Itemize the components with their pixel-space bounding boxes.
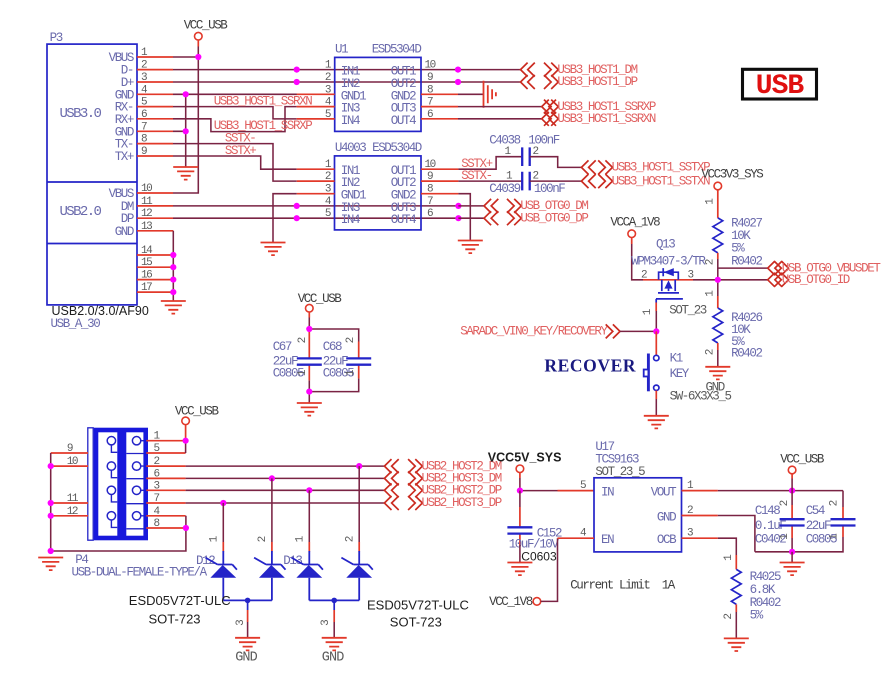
wire VCC5V_SYS to U17 IN xyxy=(520,478,558,491)
svg-text:SARADC_VIN0_KEY/RECOVERY: SARADC_VIN0_KEY/RECOVERY xyxy=(460,325,608,339)
wire SSTX+ OUT1 to C4038 xyxy=(458,157,522,170)
power VCC3V3_SYS xyxy=(701,168,763,218)
svg-text:Current Limit 1A: Current Limit 1A xyxy=(570,579,676,593)
svg-text:6: 6 xyxy=(427,208,433,220)
svg-text:2: 2 xyxy=(345,337,357,343)
ground (P4) xyxy=(38,558,63,571)
svg-text:SW-6X3X3_5: SW-6X3X3_5 xyxy=(670,390,732,404)
svg-text:2: 2 xyxy=(705,349,717,355)
diode D13 lead B xyxy=(358,466,360,542)
capacitor C67 22uF xyxy=(273,332,322,380)
net label USB2_HOST3_DM xyxy=(384,471,501,485)
ESD chip U4003 xyxy=(335,141,422,230)
wire Q13 drain to USB_OTG0_ID xyxy=(693,279,768,281)
svg-text:R0402: R0402 xyxy=(731,255,762,269)
svg-text:USB3_HOST1_SSTXP: USB3_HOST1_SSTXP xyxy=(612,161,711,175)
svg-text:OUT4: OUT4 xyxy=(391,114,416,128)
U1 pin numbers xyxy=(325,60,436,121)
switch K1 KEY xyxy=(644,331,732,403)
wire SSTX- (pin8 to U4003 IN2) xyxy=(173,144,297,182)
ground (D12) xyxy=(235,638,260,651)
svg-text:SSTX+: SSTX+ xyxy=(225,144,256,158)
P3 pin numbers xyxy=(141,47,153,294)
svg-text:IN: IN xyxy=(601,486,614,500)
wire U1 GND2 to right-pointing ground xyxy=(458,93,484,95)
svg-text:Q13: Q13 xyxy=(656,237,675,251)
svg-text:3: 3 xyxy=(320,620,332,626)
power VCC_USB (P4) xyxy=(175,405,220,441)
ground (K1) xyxy=(644,416,669,429)
svg-text:3: 3 xyxy=(235,620,247,626)
wire VCC to P4 pins 1,5 xyxy=(185,441,187,453)
svg-text:KEY: KEY xyxy=(670,367,690,381)
svg-text:ESD5304D: ESD5304D xyxy=(372,42,422,56)
svg-text:VCC_USB: VCC_USB xyxy=(298,292,343,306)
resistor R4027 10K xyxy=(705,198,763,269)
P3 pin stubs xyxy=(137,57,173,292)
wire R4025 to ground xyxy=(735,612,737,638)
wire U17 GND to rail xyxy=(682,515,718,517)
wire D+ (pin3 to U1 IN2 through to OUT2) xyxy=(173,81,521,83)
net label USB2_HOST2_DP xyxy=(384,483,501,497)
svg-text:TX+: TX+ xyxy=(115,150,134,164)
net label USB_OTG0_DM xyxy=(484,199,588,213)
svg-text:K1: K1 xyxy=(670,352,683,366)
junctions diode taps xyxy=(356,463,362,469)
wire D12 common cathode rail xyxy=(223,600,272,610)
svg-text:USB3_HOST1_SSRXN: USB3_HOST1_SSRXN xyxy=(557,112,656,126)
capacitor C4038 100nF xyxy=(489,133,560,166)
svg-text:C0603: C0603 xyxy=(521,549,557,563)
svg-text:2: 2 xyxy=(828,500,840,506)
svg-text:100nF: 100nF xyxy=(534,182,565,196)
svg-text:VOUT: VOUT xyxy=(651,486,677,500)
ground (P3 GND pins) xyxy=(173,167,198,180)
svg-text:9: 9 xyxy=(427,72,433,84)
ground (D13) xyxy=(322,638,347,651)
svg-text:EN: EN xyxy=(601,533,614,547)
capacitor C4039 100nF xyxy=(489,170,565,196)
wire USB2_HOST2_DP row xyxy=(186,489,385,491)
svg-text:C54: C54 xyxy=(806,504,825,518)
svg-text:P3: P3 xyxy=(50,31,63,45)
svg-text:C68: C68 xyxy=(323,340,342,354)
svg-text:GND: GND xyxy=(322,651,344,666)
resistor R4026 10K xyxy=(705,290,763,361)
junction C148 ground rail xyxy=(789,549,795,555)
ground (P3 pins 13-17) xyxy=(161,301,186,314)
svg-text:USB: USB xyxy=(756,71,805,102)
net label SARADC_VIN0_KEY/RECOVERY xyxy=(460,324,620,338)
svg-text:R0402: R0402 xyxy=(731,347,762,361)
U4003 pin numbers xyxy=(325,159,436,220)
ground (C148/C54) xyxy=(780,563,805,576)
power VCCA_1V8 xyxy=(610,216,660,245)
svg-text:2: 2 xyxy=(705,259,717,265)
svg-text:U1: U1 xyxy=(335,42,348,56)
svg-text:SSTX-: SSTX- xyxy=(461,169,492,183)
wire U1 OUT4 xyxy=(458,118,542,120)
wire USB2_HOST3_DM row xyxy=(186,477,385,479)
svg-text:2: 2 xyxy=(257,536,269,542)
svg-text:SOT_23_5: SOT_23_5 xyxy=(595,465,645,479)
wire DM (pin11 through U4003 IN3/OUT3) xyxy=(173,205,458,207)
svg-text:7: 7 xyxy=(427,196,433,208)
ground (R4025) xyxy=(724,638,749,651)
diode D12 lead A xyxy=(222,503,224,542)
capacitor C148 0.1uF xyxy=(755,491,805,552)
junctions DM/DP xyxy=(294,203,300,209)
wire P4 ground pins 9-12 xyxy=(51,453,186,551)
net label USB3_HOST1_SSRXP xyxy=(542,100,656,114)
connector P4 dual USB xyxy=(72,428,208,580)
svg-text:C4039: C4039 xyxy=(489,182,520,196)
title box USB xyxy=(743,69,817,102)
wire SSTX+ (pin9 to U4003 IN1) xyxy=(173,156,297,169)
P4 pin numbers xyxy=(67,431,161,530)
wire OUT4 to USB_OTG0_DP label xyxy=(458,217,484,219)
wire U1 OUT3 xyxy=(458,106,542,108)
net label USB_OTG0_VBUSDET xyxy=(768,261,882,275)
svg-text:OUT4: OUT4 xyxy=(391,213,416,227)
capacitor C68 22uF xyxy=(323,337,371,380)
svg-text:5: 5 xyxy=(325,208,331,220)
wire VCC_1V8 to U17 EN xyxy=(541,538,558,601)
svg-text:C148: C148 xyxy=(755,504,780,518)
ground (U4003 GND2) xyxy=(458,241,483,254)
net label USB3_HOST1_SSRXN xyxy=(542,112,656,126)
svg-text:VCC_USB: VCC_USB xyxy=(780,453,825,467)
svg-text:IN4: IN4 xyxy=(341,213,360,227)
wire SSRXN (pin5 to U1 IN4 with jog) xyxy=(173,107,297,119)
ground (right-pointing, U1 GND2) xyxy=(484,81,496,108)
svg-text:ESD05V72T-ULC: ESD05V72T-ULC xyxy=(129,593,231,608)
svg-text:SOT_23: SOT_23 xyxy=(669,304,707,318)
wire R4026 to ground xyxy=(717,350,719,367)
svg-text:IN4: IN4 xyxy=(341,114,360,128)
wire U17 OCB to R4025 xyxy=(682,537,718,539)
svg-text:VCC_USB: VCC_USB xyxy=(184,18,229,32)
svg-text:SOT-723: SOT-723 xyxy=(390,615,442,630)
svg-text:2: 2 xyxy=(325,72,331,84)
svg-text:VCCA_1V8: VCCA_1V8 xyxy=(610,216,660,230)
net label USB2_HOST3_DP xyxy=(384,496,501,510)
net label USB3_HOST1_DP xyxy=(521,75,638,89)
svg-text:R4025: R4025 xyxy=(750,570,781,584)
power VCC_USB (C67/C68) xyxy=(298,292,343,318)
svg-text:ESD5304D: ESD5304D xyxy=(372,141,422,155)
power VCC_1V8 xyxy=(489,595,541,609)
capacitor C54 22uF xyxy=(755,491,856,552)
svg-text:USB-DUAL-FEMALE-TYPE/A: USB-DUAL-FEMALE-TYPE/A xyxy=(72,565,208,579)
net label USB2_HOST2_DM xyxy=(384,459,501,473)
svg-text:USB3.0: USB3.0 xyxy=(60,106,102,122)
wire D13 common cathode rail xyxy=(309,600,359,610)
connector P3 xyxy=(47,31,137,305)
svg-text:VCC5V_SYS: VCC5V_SYS xyxy=(488,450,562,464)
wire DP (pin12 through U4003 IN4/OUT4) xyxy=(173,217,458,219)
svg-text:22uF: 22uF xyxy=(806,519,831,533)
svg-text:ESD05V72T-ULC: ESD05V72T-ULC xyxy=(367,598,469,613)
regulator U17 TCS9163 xyxy=(580,440,694,552)
wire U4003 GND1 to ground xyxy=(273,194,297,242)
svg-text:VBUS: VBUS xyxy=(109,187,134,201)
svg-text:D13: D13 xyxy=(283,554,302,568)
P4 pin stubs xyxy=(51,441,186,528)
capacitor C152 10uF/10V xyxy=(507,491,562,564)
wire SSRXP (pin6 to U1 IN3 with jog) xyxy=(173,107,297,132)
diode D12 lead B xyxy=(271,478,273,542)
diode D13 lead A xyxy=(308,490,310,542)
U1 pin stubs xyxy=(297,94,458,119)
svg-text:5%: 5% xyxy=(750,609,764,623)
power VCC5V_SYS xyxy=(488,450,562,478)
wire SSTX- OUT2 to C4039 xyxy=(458,180,522,182)
wire R4027/R4026 junction xyxy=(717,268,719,296)
power VCC_USB (U17 output) xyxy=(780,453,825,491)
svg-text:VCC3V3_SYS: VCC3V3_SYS xyxy=(701,168,763,182)
junction pin1/VCC xyxy=(195,54,201,60)
svg-text:2: 2 xyxy=(723,614,735,620)
wire C4038 pin2 to SSTXP label xyxy=(530,157,582,168)
net label USB3_HOST1_SSTXN xyxy=(581,174,710,188)
junctions on D-/D+ wires xyxy=(294,67,300,73)
svg-text:5: 5 xyxy=(580,480,586,492)
wire GND pins 4,7 to U1 GND1 and ground xyxy=(173,94,297,167)
svg-text:C67: C67 xyxy=(273,340,292,354)
wire U4003 GND2 to ground xyxy=(458,194,470,240)
svg-text:6.8K: 6.8K xyxy=(750,583,776,597)
wire USB2_HOST3_DP row xyxy=(186,502,385,504)
wire Q13 gate to key net xyxy=(655,311,657,331)
svg-text:10: 10 xyxy=(425,60,436,72)
net label USB3_HOST1_SSTXP xyxy=(581,160,710,174)
ground (C152) xyxy=(507,563,532,576)
wire U17 VOUT rail xyxy=(682,490,718,492)
power VCC_USB (top) xyxy=(184,18,229,46)
wire D- (pin2 to U1 IN1 through to OUT1) xyxy=(173,69,521,71)
svg-text:U4003: U4003 xyxy=(335,141,366,155)
net label USB3_HOST1_DM xyxy=(521,63,638,77)
svg-text:GND: GND xyxy=(235,651,257,666)
svg-text:OCB: OCB xyxy=(657,533,677,547)
svg-text:GND: GND xyxy=(115,225,134,239)
svg-text:USB2.0/3.0/AF90: USB2.0/3.0/AF90 xyxy=(52,304,149,318)
wire OUT3 to USB_OTG0_DM label xyxy=(458,205,484,207)
svg-text:USB_OTG0_ID: USB_OTG0_ID xyxy=(782,273,850,287)
ground (C67/C68) xyxy=(297,403,322,416)
svg-text:GND: GND xyxy=(657,511,676,525)
svg-text:USB_A_30: USB_A_30 xyxy=(51,317,101,331)
svg-text:USB3_HOST1_DP: USB3_HOST1_DP xyxy=(557,75,637,89)
svg-text:2: 2 xyxy=(344,536,356,542)
ground (R4026) xyxy=(705,367,730,380)
net label USB_OTG0_ID xyxy=(768,273,850,287)
wire R4027 to USB_OTG0_VBUSDET xyxy=(718,259,768,268)
svg-text:RECOVER: RECOVER xyxy=(544,356,636,376)
wire VCC_USB to VBUS pins 1 and 10 xyxy=(173,47,198,194)
svg-text:SOT-723: SOT-723 xyxy=(149,612,201,627)
ground (U4003 GND1) xyxy=(261,243,286,256)
svg-text:2: 2 xyxy=(297,337,309,343)
wire VCCA_1V8 to Q13 source xyxy=(632,244,643,280)
svg-text:USB2.0: USB2.0 xyxy=(60,204,102,220)
svg-text:VCC_USB: VCC_USB xyxy=(175,405,220,419)
svg-text:5%: 5% xyxy=(731,242,745,256)
svg-text:USB3_HOST1_SSTXN: USB3_HOST1_SSTXN xyxy=(612,174,711,188)
op-amp/ESD chip U1 xyxy=(335,42,422,131)
svg-text:USB_OTG0_DP: USB_OTG0_DP xyxy=(520,211,588,225)
U4003 pin stubs xyxy=(297,169,459,194)
wire key net xyxy=(620,330,656,332)
transistor Q13 WPM3407-3/TR xyxy=(631,237,707,317)
svg-text:USB2_HOST3_DP: USB2_HOST3_DP xyxy=(422,496,502,510)
wire K1 to ground xyxy=(655,399,657,415)
wire C4039 pin2 to SSTXN label xyxy=(530,180,582,182)
net label USB_OTG0_DP xyxy=(484,211,588,225)
wire USB2_HOST2_DM row xyxy=(186,465,385,467)
resistor R4025 6.8K xyxy=(723,554,781,623)
svg-text:WPM3407-3/TR: WPM3407-3/TR xyxy=(631,255,706,269)
wire VCC_USB rail to C67/C68 xyxy=(309,318,358,403)
svg-text:VCC_1V8: VCC_1V8 xyxy=(489,595,533,609)
svg-text:2: 2 xyxy=(779,500,791,506)
wire pins 13-17 to ground xyxy=(172,231,174,301)
